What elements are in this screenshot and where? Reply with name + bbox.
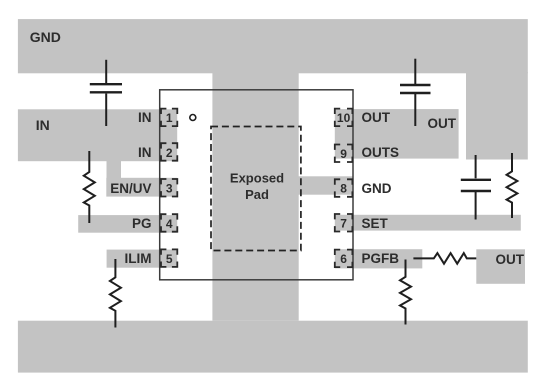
input capacitor C1 plates [90, 84, 122, 92]
central exposed-pad copper band [212, 72, 298, 321]
svg-text:GND: GND [362, 181, 392, 196]
svg-text:EN/UV: EN/UV [110, 181, 151, 196]
svg-text:1: 1 [166, 111, 173, 125]
SET copper strip [335, 215, 521, 231]
OUT copper region top right [335, 109, 459, 159]
PGFB copper strip [335, 249, 423, 268]
pin pad 8 [335, 179, 353, 197]
pin 1 marker circle [190, 115, 196, 121]
svg-text:PGFB: PGFB [362, 251, 400, 266]
svg-text:2: 2 [166, 146, 173, 160]
svg-text:IN: IN [36, 117, 50, 133]
PG pull-up resistor R2 [84, 151, 95, 223]
pin pad 5 [161, 249, 177, 267]
EN/UV to IN copper stub [107, 160, 122, 181]
svg-text:PG: PG [132, 216, 152, 231]
svg-text:8: 8 [340, 182, 347, 196]
svg-text:9: 9 [340, 147, 347, 161]
GND pin8 to exposed pad copper connector [298, 176, 352, 194]
input capacitor C1 wire top [105, 60, 107, 83]
PGFB pull-down resistor R4 [400, 260, 411, 325]
right GND copper plane extension [466, 72, 528, 160]
pin pad 2 [161, 143, 177, 161]
SET capacitor C3 wire top [475, 155, 477, 178]
pin pad 10 [335, 109, 353, 127]
svg-text:SET: SET [362, 216, 389, 231]
IN copper plane [18, 109, 177, 161]
top GND copper plane [18, 19, 528, 73]
svg-text:OUT: OUT [362, 110, 391, 125]
svg-text:10: 10 [337, 111, 351, 125]
svg-text:OUTS: OUTS [362, 145, 400, 160]
OUT copper box bottom right [476, 249, 525, 283]
input capacitor C1 wire bottom [105, 94, 107, 126]
svg-text:IN: IN [138, 145, 152, 160]
svg-text:GND: GND [30, 29, 61, 45]
SET capacitor C3 plates [461, 180, 491, 191]
svg-text:7: 7 [340, 216, 347, 230]
SET resistor R1 [507, 153, 518, 218]
chip U1 package outline [160, 90, 353, 280]
output capacitor C2 wire bottom [414, 94, 416, 126]
svg-text:Pad: Pad [245, 187, 269, 202]
svg-text:6: 6 [340, 252, 347, 266]
pin pad 6 [335, 250, 353, 268]
PGFB feedback resistor R5 (horizontal) [413, 253, 476, 264]
ILIM resistor R3 [110, 259, 121, 328]
pin pad 4 [161, 214, 177, 232]
PG copper strip [78, 215, 177, 233]
svg-text:OUT: OUT [428, 116, 457, 131]
pin pad 3 [161, 179, 177, 197]
pin pad 9 [335, 145, 353, 163]
svg-text:ILIM: ILIM [125, 251, 152, 266]
ILIM copper strip [107, 250, 178, 268]
SET capacitor C3 wire bottom [475, 192, 477, 220]
bottom GND copper plane [18, 321, 528, 373]
pin pad 1 [161, 109, 177, 127]
svg-text:5: 5 [166, 252, 173, 266]
svg-text:3: 3 [166, 182, 173, 196]
svg-text:Exposed: Exposed [230, 171, 284, 186]
pin pad 7 [335, 214, 353, 232]
svg-text:OUT: OUT [496, 252, 525, 267]
svg-text:4: 4 [166, 217, 173, 231]
exposed pad dashed outline [211, 127, 301, 251]
output capacitor C2 wire top [414, 59, 416, 85]
EN/UV copper strip [106, 178, 177, 197]
output capacitor C2 plates [400, 85, 431, 93]
svg-text:IN: IN [138, 110, 152, 125]
